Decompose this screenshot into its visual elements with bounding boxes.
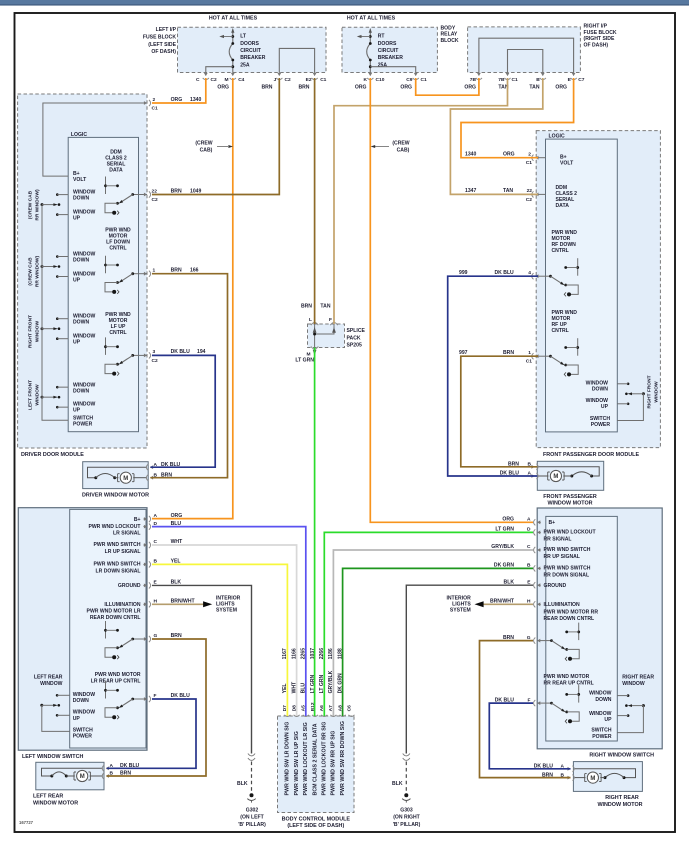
driver motor pin B socket and labels [146, 475, 153, 481]
driver window motor internal [88, 467, 148, 478]
svg-text:997: 997 [459, 350, 468, 356]
svg-text:167727: 167727 [19, 820, 34, 825]
svg-text:DOWN: DOWN [592, 387, 608, 393]
lr motor pin B socket and labels [102, 773, 109, 779]
svg-text:GROUND: GROUND [118, 583, 141, 589]
wire LT GRN 1037 splice M to BCM [314, 348, 316, 717]
svg-text:BODY CONTROL MODULE: BODY CONTROL MODULE [282, 817, 351, 823]
svg-text:TAN: TAN [503, 188, 513, 194]
svg-text:G303: G303 [400, 808, 413, 814]
wire ORG 1340 fuse pin E to passenger pin 2 [461, 78, 574, 158]
svg-text:UP: UP [601, 404, 609, 410]
pin E2 connector C1 [312, 72, 318, 79]
svg-text:TAN: TAN [529, 85, 539, 91]
svg-text:DRIVER WINDOW MOTOR: DRIVER WINDOW MOTOR [82, 493, 149, 499]
svg-text:(RIGHT SIDE: (RIGHT SIDE [584, 36, 615, 42]
right switch pin F (DK BLU) [534, 700, 541, 706]
left switch pin B (YEL) [143, 561, 150, 567]
svg-text:LR REAR UP CNTRL: LR REAR UP CNTRL [91, 679, 141, 685]
svg-text:UP: UP [73, 340, 81, 346]
svg-text:BCM CLASS 2 SERIAL DATA: BCM CLASS 2 SERIAL DATA [312, 723, 318, 795]
switch symbol at driver pin 3 (LF up) [133, 354, 147, 356]
driver pin 3 socket and labels [143, 352, 150, 358]
svg-text:BRN: BRN [503, 350, 514, 356]
svg-text:1340: 1340 [190, 97, 201, 103]
svg-text:RR UP SIGNAL: RR UP SIGNAL [544, 554, 580, 560]
passenger pin 1 socket and labels [532, 353, 539, 359]
svg-text:(ON LEFT: (ON LEFT [240, 815, 264, 821]
svg-text:BODY: BODY [441, 25, 456, 31]
pin C9 connector C1 [413, 72, 419, 79]
wire LT GRN 2266 right switch pin D to BCM A6 [324, 532, 533, 716]
svg-text:VOLT: VOLT [73, 177, 87, 183]
switch symbol at right switch pin G [537, 640, 551, 642]
svg-text:UP: UP [73, 278, 81, 284]
driver pin 2 socket and labels [143, 100, 150, 106]
svg-text:FRONT PASSENGER: FRONT PASSENGER [543, 494, 597, 500]
pin M connector C4 [230, 72, 236, 79]
svg-text:WINDOW: WINDOW [589, 711, 612, 717]
left switch pin A (ORG) [143, 516, 150, 522]
left window switch box [18, 508, 147, 751]
svg-text:BREAKER: BREAKER [240, 55, 266, 61]
driver pin 22 socket and labels [143, 191, 150, 197]
circuit breaker LT DOORS 25A symbol [232, 30, 234, 44]
wire BRN 166 driver pin 1 to driver motor pin B [150, 274, 227, 478]
wire BRN left switch pin G to left rear motor pin B [107, 639, 206, 776]
front passenger motor internal [539, 467, 600, 476]
wire: breaker to pin C9 jumper [370, 67, 415, 73]
left switch pin D (BLU) [143, 524, 150, 530]
svg-text:M: M [224, 77, 228, 83]
svg-text:(CREW CAB: (CREW CAB [28, 257, 34, 286]
wire YEL left switch pin B to BCM D7 [152, 564, 287, 716]
svg-text:LT: LT [240, 34, 247, 40]
svg-text:PWR WND MOTOR LR: PWR WND MOTOR LR [87, 609, 141, 615]
wire DK BLU 999 passenger pin 4 to fp motor pin A [448, 276, 538, 476]
svg-text:999: 999 [459, 270, 468, 276]
right switch pin A (ORG) [534, 519, 541, 525]
svg-text:(LEFT SIDE: (LEFT SIDE [148, 42, 176, 48]
svg-text:2: 2 [153, 97, 156, 103]
svg-text:K: K [364, 77, 368, 83]
svg-text:194: 194 [197, 349, 206, 355]
right switch pin E (BLK) [534, 582, 541, 588]
svg-text:LR SIGNAL: LR SIGNAL [113, 531, 140, 537]
svg-text:LEFT REAR: LEFT REAR [33, 794, 63, 800]
switch symbol at left switch pin F [133, 698, 147, 700]
svg-text:REAR DOWN CNTRL: REAR DOWN CNTRL [544, 616, 595, 622]
svg-text:HOT AT ALL TIMES: HOT AT ALL TIMES [209, 16, 258, 22]
svg-text:'B' PILLAR): 'B' PILLAR) [393, 822, 421, 828]
left switch pin H (BRN/WHT) [143, 601, 150, 607]
wire DK BLU left switch pin F to left rear motor pin A [107, 699, 196, 768]
svg-text:DATA: DATA [109, 168, 123, 174]
svg-text:PWR WND SW RR DOWN SIG: PWR WND SW RR DOWN SIG [340, 721, 346, 795]
svg-text:25A: 25A [378, 62, 388, 68]
svg-text:WINDOW: WINDOW [35, 320, 41, 342]
svg-text:DOWN: DOWN [73, 698, 89, 704]
svg-text:UP: UP [604, 717, 612, 723]
svg-text:(CREW: (CREW [392, 141, 409, 147]
ground G303 symbol [404, 793, 408, 797]
svg-text:BRN: BRN [298, 85, 309, 91]
svg-text:C2: C2 [152, 197, 158, 203]
wire: fuse block pins 7B to E jumper [479, 38, 574, 72]
svg-text:ORG: ORG [217, 85, 229, 91]
left rear motor internal [42, 768, 103, 776]
svg-text:ORG: ORG [555, 85, 567, 91]
wire BRN right switch pin G to right rear motor pin B [480, 641, 571, 778]
window selector contacts pair 1 (driver) [41, 203, 44, 206]
svg-text:PWR WND MOTOR: PWR WND MOTOR [95, 672, 141, 678]
svg-text:CNTRL: CNTRL [109, 246, 126, 252]
svg-text:DOWN: DOWN [73, 196, 89, 202]
svg-text:C1: C1 [152, 106, 158, 112]
driver door module logic box [68, 137, 138, 431]
svg-text:1347: 1347 [465, 188, 476, 194]
svg-text:PWR WND SWITCH: PWR WND SWITCH [544, 547, 591, 553]
window selector contacts pair 4 (driver) [41, 396, 44, 399]
wire DK BLU 194 driver pin 3 to driver motor pin A [150, 355, 215, 467]
svg-text:CIRCUIT: CIRCUIT [240, 48, 262, 54]
right switch pin H (BRN/WHT) [534, 601, 541, 607]
svg-text:M: M [553, 474, 558, 480]
passenger pin 4 socket and label [532, 273, 539, 279]
svg-text:SWITCH: SWITCH [73, 727, 93, 733]
svg-text:25A: 25A [240, 62, 250, 68]
left switch pin E (BLK) [143, 582, 150, 588]
svg-text:RIGHT FRONT: RIGHT FRONT [28, 315, 34, 348]
svg-text:(LEFT SIDE OF DASH): (LEFT SIDE OF DASH) [287, 823, 344, 829]
svg-text:REAR DOWN CNTRL: REAR DOWN CNTRL [90, 615, 141, 621]
svg-text:OF DASH): OF DASH) [151, 49, 176, 55]
svg-text:LEFT I/P: LEFT I/P [156, 27, 177, 33]
svg-text:166: 166 [190, 268, 199, 274]
svg-text:DATA: DATA [556, 203, 570, 209]
svg-text:LR UP SIGNAL: LR UP SIGNAL [105, 549, 141, 555]
svg-text:SYSTEM: SYSTEM [450, 608, 471, 614]
svg-text:WINDOW MOTOR: WINDOW MOTOR [597, 802, 642, 808]
svg-text:PWR WND MOTOR RR: PWR WND MOTOR RR [544, 610, 599, 616]
svg-text:RR SIGNAL: RR SIGNAL [544, 536, 572, 542]
passenger pin 22 socket and labels [532, 191, 539, 197]
svg-text:ILLUMINATION: ILLUMINATION [544, 602, 580, 608]
front passenger window motor M2 box [537, 461, 603, 490]
svg-text:C: C [196, 77, 200, 83]
right switch pin B (DK GRN) [534, 565, 541, 571]
driver window motor M1 box [83, 462, 149, 489]
svg-text:2: 2 [528, 152, 531, 158]
svg-text:SP205: SP205 [347, 343, 362, 349]
svg-text:WINDOW: WINDOW [73, 710, 96, 716]
svg-text:LOGIC: LOGIC [71, 132, 87, 138]
splice pack internal bus [314, 324, 316, 348]
passenger selector common wire to switch power [617, 394, 643, 421]
svg-text:FUSE BLOCK: FUSE BLOCK [584, 30, 617, 36]
fp motor pin A socket and labels [531, 473, 538, 479]
svg-text:FRONT PASSENGER DOOR MODULE: FRONT PASSENGER DOOR MODULE [543, 452, 639, 458]
svg-text:RR DOWN SIGNAL: RR DOWN SIGNAL [544, 572, 590, 578]
ground G302 symbol [250, 793, 254, 797]
wire BRN 1049 breaker pin J to driver pin 22 [152, 78, 279, 195]
svg-text:RIGHT FRONT: RIGHT FRONT [647, 375, 653, 408]
svg-text:DOORS: DOORS [378, 41, 397, 47]
svg-text:DRIVER DOOR MODULE: DRIVER DOOR MODULE [21, 452, 84, 458]
svg-text:ORG: ORG [400, 85, 412, 91]
svg-text:BLK: BLK [392, 781, 403, 787]
svg-text:GROUND: GROUND [544, 583, 567, 589]
svg-text:J: J [274, 77, 277, 83]
svg-text:PWR WND MOTOR: PWR WND MOTOR [544, 674, 590, 680]
window selector contacts pair 2 (driver) [41, 265, 44, 268]
svg-text:DK BLU: DK BLU [171, 349, 191, 355]
svg-text:M: M [80, 774, 85, 780]
inline connector on left BLK ground wire [248, 754, 255, 761]
svg-text:C1: C1 [526, 359, 532, 365]
front passenger door module box [536, 131, 660, 448]
left switch selector common to switch power [42, 705, 70, 731]
svg-text:RIGHT I/P: RIGHT I/P [584, 24, 608, 30]
driver selector common bus wire to switch power [42, 205, 68, 421]
pin 7B (left) [476, 72, 482, 79]
svg-text:DOWN: DOWN [73, 320, 89, 326]
right window switch inner box [546, 516, 618, 741]
wire BRN/WHT left switch pin H to interior lights [152, 603, 205, 605]
wire: breaker to pin C jumper [206, 67, 233, 73]
svg-text:4: 4 [528, 270, 531, 276]
svg-text:BLOCK: BLOCK [441, 38, 459, 44]
wire BRN 997 passenger pin 1 to fp motor pin B [461, 356, 538, 467]
wire BLK left switch pin E to ground G302 [152, 585, 252, 753]
svg-text:ORG: ORG [464, 85, 476, 91]
rr motor pin A socket and labels [567, 766, 574, 772]
svg-text:C6: C6 [346, 705, 352, 712]
svg-text:BRN: BRN [171, 188, 182, 194]
svg-text:C2: C2 [526, 197, 532, 203]
svg-text:WINDOW: WINDOW [35, 384, 41, 406]
svg-text:LT GRN: LT GRN [295, 358, 314, 364]
driver pin 1 socket and label [143, 271, 150, 277]
svg-text:LEFT REAR: LEFT REAR [34, 675, 63, 681]
svg-text:G302: G302 [246, 808, 259, 814]
svg-text:1049: 1049 [190, 188, 201, 194]
driver module B+ internal wire from pin 2 [43, 103, 146, 176]
svg-text:7B: 7B [470, 77, 477, 83]
splice pack SP205 box [308, 324, 345, 348]
window selector contacts (passenger) [642, 392, 645, 395]
svg-text:RIGHT REAR: RIGHT REAR [622, 675, 654, 681]
svg-text:M: M [123, 476, 128, 482]
svg-text:RR REAR UP CNTRL: RR REAR UP CNTRL [544, 681, 594, 687]
svg-text:22: 22 [527, 188, 533, 194]
switch symbol at driver pin 1 (LF down) [133, 273, 147, 275]
svg-text:B: B [536, 77, 540, 83]
svg-text:WINDOW: WINDOW [589, 691, 612, 697]
svg-text:(CREW CAB: (CREW CAB [28, 190, 34, 219]
svg-text:3: 3 [153, 349, 156, 355]
wire ORG crew cab feed pin M to left switch pin A [152, 78, 233, 519]
lr motor pin A socket and labels [102, 765, 109, 771]
right I/P fuse block box [468, 27, 581, 73]
svg-text:HOT AT ALL TIMES: HOT AT ALL TIMES [347, 16, 396, 22]
svg-text:C4: C4 [238, 77, 244, 83]
svg-text:PWR WND SW LR UP SIG: PWR WND SW LR UP SIG [294, 731, 300, 795]
wire GRY/BLK right switch pin C to BCM A7 [333, 550, 533, 716]
svg-text:C9: C9 [406, 77, 412, 83]
right switch pin G (BRN) [534, 638, 541, 644]
body relay block box (RT doors circuit breaker) [342, 27, 437, 72]
svg-text:RIGHT REAR: RIGHT REAR [605, 795, 639, 801]
svg-text:WINDOW: WINDOW [622, 681, 645, 687]
svg-text:BRN: BRN [301, 304, 312, 310]
svg-text:C1: C1 [512, 77, 518, 83]
wire DK BLU right switch pin F to right rear motor pin A [489, 703, 570, 769]
svg-text:OF DASH): OF DASH) [584, 42, 609, 48]
svg-text:1340: 1340 [465, 152, 476, 158]
svg-text:PWR WND SWITCH: PWR WND SWITCH [544, 566, 591, 572]
svg-text:PWR WND SWITCH: PWR WND SWITCH [94, 562, 141, 568]
svg-text:C2: C2 [152, 358, 158, 364]
svg-text:RIGHT WINDOW SWITCH: RIGHT WINDOW SWITCH [589, 753, 654, 759]
svg-text:ORG: ORG [503, 152, 515, 158]
svg-text:DOWN: DOWN [595, 697, 611, 703]
window selector contacts pair 3 (driver) [41, 327, 44, 330]
fp motor pin B socket and labels [531, 464, 538, 470]
top window chrome bar [0, 0, 689, 4]
left switch pin G (BRN) [143, 636, 150, 642]
svg-text:C1: C1 [421, 77, 427, 83]
svg-text:M: M [590, 776, 595, 782]
svg-text:C1: C1 [526, 160, 532, 166]
svg-text:PWR WND SWITCH: PWR WND SWITCH [94, 542, 141, 548]
svg-text:'B' PILLAR): 'B' PILLAR) [238, 822, 266, 828]
svg-text:B+: B+ [549, 520, 556, 526]
svg-text:PWR WND LOCKOUT RR SIG: PWR WND LOCKOUT RR SIG [322, 722, 328, 796]
pin E connector C7 [571, 72, 577, 79]
left switch pin F (DK BLU) [143, 696, 150, 702]
svg-text:PWR WND LOCKOUT LR SIG: PWR WND LOCKOUT LR SIG [303, 722, 309, 795]
left switch pin C (WHT) [143, 542, 150, 548]
svg-text:1: 1 [528, 350, 531, 356]
left rear window motor M3 box [36, 762, 104, 790]
pin K connector C10 [367, 72, 373, 79]
pin B [540, 72, 546, 79]
svg-text:UP: UP [73, 408, 81, 414]
svg-text:UP: UP [73, 716, 81, 722]
svg-text:RELAY: RELAY [441, 32, 458, 38]
svg-text:DOWN: DOWN [73, 258, 89, 264]
svg-text:VOLT: VOLT [560, 161, 574, 167]
svg-text:LEFT FRONT: LEFT FRONT [28, 380, 34, 410]
svg-text:UP: UP [73, 216, 81, 222]
left I/P fuse block box (LT doors circuit breaker) [178, 27, 327, 72]
wire WHT left switch pin C to BCM D8 [152, 545, 297, 716]
right switch pin C (GRY/BLK) [534, 547, 541, 553]
switch symbol at passenger pin 1 (RF up) [536, 355, 550, 357]
svg-text:RR WINDOW): RR WINDOW) [35, 256, 41, 288]
wire BLK right switch pin E to ground G303 [406, 585, 533, 753]
svg-text:TAN: TAN [320, 304, 330, 310]
svg-text:SPLICE: SPLICE [347, 328, 366, 334]
svg-text:PACK: PACK [347, 335, 361, 341]
svg-text:PWR WND SW RR UP SIG: PWR WND SW RR UP SIG [331, 731, 337, 796]
svg-text:1: 1 [153, 268, 156, 274]
wire: fuse block pins C1 to B jumper [508, 50, 543, 73]
svg-text:FUSE BLOCK: FUSE BLOCK [143, 34, 176, 40]
svg-text:CNTRL: CNTRL [552, 248, 569, 254]
wire ORG right breaker pin K to right switch pin A [370, 78, 533, 522]
svg-text:CAB): CAB) [397, 148, 410, 154]
svg-text:CAB): CAB) [200, 148, 213, 154]
window selector contacts (left switch) [40, 704, 43, 707]
wire ORG breaker C9 to fuse block 7B [416, 78, 479, 95]
wire TAN fuse block C1 to splice F [334, 78, 508, 324]
svg-text:22: 22 [152, 188, 158, 194]
breaker feed arrow (left) [224, 36, 233, 38]
right window switch box [537, 508, 662, 749]
svg-text:B+: B+ [134, 517, 141, 523]
svg-text:LEFT WINDOW SWITCH: LEFT WINDOW SWITCH [22, 754, 83, 760]
pin C connector C2 [203, 72, 209, 79]
pin J connector C2 [276, 72, 282, 79]
svg-text:7B: 7B [498, 77, 505, 83]
inline connector on right BLK ground wire [403, 754, 410, 761]
svg-text:WINDOW MOTOR: WINDOW MOTOR [547, 501, 592, 507]
svg-text:C10: C10 [376, 77, 385, 83]
svg-text:SYSTEM: SYSTEM [216, 608, 237, 614]
right rear window motor M4 box [573, 762, 642, 792]
left window switch inner box [70, 509, 146, 748]
svg-text:WINDOW: WINDOW [654, 381, 660, 403]
svg-text:BLK: BLK [237, 781, 248, 787]
svg-text:RR WINDOW): RR WINDOW) [35, 189, 41, 221]
svg-text:BRN: BRN [261, 85, 272, 91]
svg-text:C2: C2 [285, 77, 291, 83]
switch symbol at left switch pin G [133, 638, 147, 640]
svg-text:BREAKER: BREAKER [378, 55, 404, 61]
svg-text:RT: RT [378, 34, 386, 40]
svg-text:CIRCUIT: CIRCUIT [378, 48, 400, 54]
svg-text:POWER: POWER [73, 422, 93, 428]
rr motor pin B socket and labels [567, 775, 574, 781]
svg-text:LOGIC: LOGIC [549, 134, 565, 140]
svg-text:C7: C7 [578, 77, 584, 83]
pin 7B connector C1 [504, 72, 510, 79]
driver door module box [18, 94, 147, 448]
svg-text:BRN: BRN [171, 268, 182, 274]
body control module box [278, 716, 355, 813]
wire TAN 1347 fuse pin B to passenger pin 22 [450, 78, 542, 194]
svg-text:ORG: ORG [171, 97, 183, 103]
passenger B+ internal wire pin 2 [538, 157, 546, 159]
svg-text:C1: C1 [320, 77, 326, 83]
svg-text:(CREW: (CREW [195, 141, 212, 147]
svg-text:WINDOW: WINDOW [40, 681, 63, 687]
passenger pin 2 socket and labels [532, 155, 539, 161]
passenger logic box [546, 139, 618, 432]
wire: pins J to E2 jumper [279, 48, 314, 72]
svg-text:WINDOW: WINDOW [73, 692, 96, 698]
svg-text:PWR WND LOCKOUT: PWR WND LOCKOUT [88, 524, 141, 530]
svg-text:WINDOW MOTOR: WINDOW MOTOR [33, 800, 78, 806]
wire DK GRN right switch pin B to BCM A8 [343, 568, 533, 716]
wire BRN breaker pin E2 to splice L [314, 78, 316, 324]
switch symbol at driver pin 22 (serial data) [133, 194, 147, 196]
svg-text:POWER: POWER [73, 734, 93, 740]
svg-text:PWR WND LOCKOUT: PWR WND LOCKOUT [544, 530, 597, 536]
svg-text:F: F [329, 317, 332, 323]
